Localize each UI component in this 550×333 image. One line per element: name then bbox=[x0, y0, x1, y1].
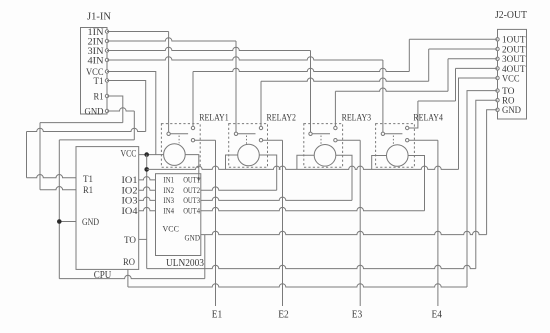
wire OUT3 bbox=[201, 197, 352, 200]
svg-text:4IN: 4IN bbox=[88, 56, 104, 66]
svg-text:RELAY4: RELAY4 bbox=[413, 114, 443, 124]
svg-text:GND: GND bbox=[185, 233, 201, 243]
svg-text:GND: GND bbox=[502, 106, 521, 116]
wire relay3 NC to E3 bbox=[337, 139, 360, 141]
svg-text:IN2: IN2 bbox=[163, 185, 174, 195]
relay RELAY3 NO contact bbox=[334, 126, 337, 129]
svg-text:3IN: 3IN bbox=[88, 47, 104, 57]
wire 3OUT relay3 to J2 bbox=[334, 91, 336, 126]
wire RO CPU to J2 TO bbox=[127, 269, 129, 287]
relay RELAY2 NO contact bbox=[259, 126, 262, 129]
wire coil4 to OUT4 bbox=[408, 156, 424, 211]
wire VCC from CPU bbox=[139, 154, 164, 156]
wire GND to ULN GND bus bbox=[59, 275, 205, 278]
svg-text:RELAY3: RELAY3 bbox=[342, 114, 372, 124]
svg-text:1IN: 1IN bbox=[88, 28, 104, 38]
svg-text:RO: RO bbox=[502, 97, 515, 107]
wire 1IN from J1 to RELAY1 common bbox=[107, 31, 169, 33]
relay RELAY1 coil bbox=[164, 144, 186, 166]
svg-text:RELAY2: RELAY2 bbox=[267, 114, 297, 124]
svg-text:E4: E4 bbox=[431, 310, 442, 321]
svg-text:IN4: IN4 bbox=[163, 206, 174, 216]
wire relay2 NC to E2 bbox=[263, 139, 283, 141]
wire coil2 to OUT2 bbox=[259, 155, 276, 190]
svg-text:OUT4: OUT4 bbox=[183, 206, 200, 216]
wire 2IN from J1 to RELAY2 common bbox=[107, 38, 236, 41]
svg-text:J1-IN: J1-IN bbox=[87, 11, 111, 23]
relay RELAY4 coil bbox=[387, 145, 409, 167]
wire GND bus ULN2003 to J2 bbox=[201, 231, 487, 234]
CPU U2 box bbox=[76, 147, 139, 270]
svg-text:IO2: IO2 bbox=[122, 185, 138, 195]
relay RELAY3 bbox=[304, 124, 343, 168]
wire VCC vertical bbox=[146, 155, 148, 269]
svg-text:TO: TO bbox=[502, 87, 515, 97]
relay RELAY4 NC contact bbox=[406, 139, 409, 142]
wire IO4 to IN4 bbox=[139, 207, 156, 210]
wire IO2 to IN2 bbox=[139, 187, 156, 190]
relay RELAY4 bbox=[376, 124, 415, 168]
wire IO1 to IN1 bbox=[139, 177, 156, 180]
svg-text:OUT3: OUT3 bbox=[183, 195, 200, 205]
svg-text:T1: T1 bbox=[94, 77, 104, 87]
wire VCC feed coil3 bbox=[297, 155, 314, 169]
svg-text:T1: T1 bbox=[83, 174, 93, 184]
svg-text:2IN: 2IN bbox=[88, 37, 104, 47]
svg-text:OUT2: OUT2 bbox=[183, 185, 200, 195]
wire TO CPU to J2 RO bbox=[139, 238, 147, 240]
svg-text:3OUT: 3OUT bbox=[502, 55, 526, 65]
relay RELAY4 mechanical link bbox=[392, 136, 394, 145]
wire 3IN from J1 to RELAY3 common bbox=[107, 47, 311, 50]
relay RELAY2 NC contact bbox=[259, 139, 262, 142]
wire coil3 to OUT3 bbox=[336, 155, 352, 200]
wire VCC feed coil4 bbox=[372, 156, 387, 170]
svg-text:1OUT: 1OUT bbox=[502, 36, 526, 46]
junction VCC node B bbox=[144, 167, 149, 172]
relay RELAY3 NC contact bbox=[334, 139, 337, 142]
wire coil1 to OUT1 arrow bbox=[185, 155, 199, 178]
svg-text:OUT1: OUT1 bbox=[183, 175, 200, 185]
svg-text:J2-OUT: J2-OUT bbox=[495, 9, 527, 21]
svg-text:VCC: VCC bbox=[502, 74, 520, 84]
wire 1OUT relay1 to J2 bbox=[192, 72, 194, 127]
wire T1 J1 to CPU bbox=[107, 81, 146, 132]
svg-text:GND: GND bbox=[82, 217, 99, 227]
svg-text:R1: R1 bbox=[83, 185, 93, 195]
relay RELAY3 coil bbox=[314, 145, 336, 167]
relay RELAY2 mechanical link bbox=[246, 136, 248, 144]
wire VCC from J1 down to coil1 feed bbox=[107, 72, 156, 155]
connector J2-OUT bbox=[498, 29, 527, 119]
wire OUT4 bbox=[201, 207, 425, 210]
relay RELAY4 NO contact bbox=[406, 126, 409, 129]
svg-text:R1: R1 bbox=[94, 92, 104, 102]
wire IO3 to IN3 bbox=[139, 197, 156, 200]
svg-text:IO4: IO4 bbox=[122, 206, 139, 216]
svg-text:RELAY1: RELAY1 bbox=[199, 114, 229, 124]
svg-text:IN1: IN1 bbox=[163, 175, 174, 185]
wire 4OUT relay4 to J2 bbox=[409, 101, 418, 128]
svg-text:E3: E3 bbox=[352, 310, 363, 321]
wire 2OUT relay2 to J2 bbox=[260, 81, 262, 126]
junction GND node bbox=[57, 219, 62, 224]
relay RELAY3 common contact bbox=[309, 132, 312, 135]
svg-text:CPU: CPU bbox=[94, 270, 112, 281]
relay RELAY1 NO contact bbox=[191, 126, 194, 129]
relay RELAY2 coil bbox=[238, 144, 260, 166]
wire 4IN from J1 to RELAY4 common bbox=[107, 57, 383, 60]
svg-text:IO1: IO1 bbox=[122, 175, 138, 185]
svg-text:IN3: IN3 bbox=[163, 195, 174, 205]
wire OUT2 bbox=[201, 187, 277, 190]
svg-text:4OUT: 4OUT bbox=[502, 65, 526, 75]
wire R1 J1 to CPU bbox=[107, 96, 123, 123]
relay RELAY1 common contact bbox=[167, 132, 170, 135]
ULN2003 U1 box bbox=[156, 174, 201, 256]
junction VCC node A bbox=[144, 152, 149, 157]
wire VCC bus bbox=[147, 166, 459, 169]
relay RELAY2 common contact bbox=[234, 132, 237, 135]
svg-text:IO3: IO3 bbox=[122, 196, 139, 206]
relay RELAY1 NC contact bbox=[191, 139, 194, 142]
svg-text:TO: TO bbox=[124, 235, 136, 245]
svg-text:E2: E2 bbox=[278, 310, 289, 321]
svg-text:E1: E1 bbox=[212, 310, 223, 321]
svg-text:VCC: VCC bbox=[121, 148, 137, 158]
wire relay1 NC to E1 bbox=[195, 139, 216, 141]
wire GND J1 to CPU bbox=[107, 108, 134, 111]
svg-text:RO: RO bbox=[123, 257, 135, 267]
svg-text:VCC: VCC bbox=[163, 224, 180, 234]
wire VCC to J2 bbox=[459, 78, 498, 169]
wire relay4 NC to E4 bbox=[409, 139, 438, 141]
relay RELAY2 bbox=[229, 124, 268, 168]
relay RELAY3 mechanical link bbox=[320, 136, 322, 145]
svg-text:GND: GND bbox=[85, 107, 104, 117]
relay RELAY1 mechanical link bbox=[178, 136, 180, 144]
svg-text:ULN2003: ULN2003 bbox=[166, 258, 204, 269]
relay RELAY1 bbox=[161, 124, 200, 168]
connector J1-IN bbox=[81, 28, 108, 115]
wire VCC feed coil2 bbox=[226, 155, 238, 169]
relay RELAY4 common contact bbox=[381, 132, 384, 135]
svg-text:2OUT: 2OUT bbox=[502, 45, 526, 55]
